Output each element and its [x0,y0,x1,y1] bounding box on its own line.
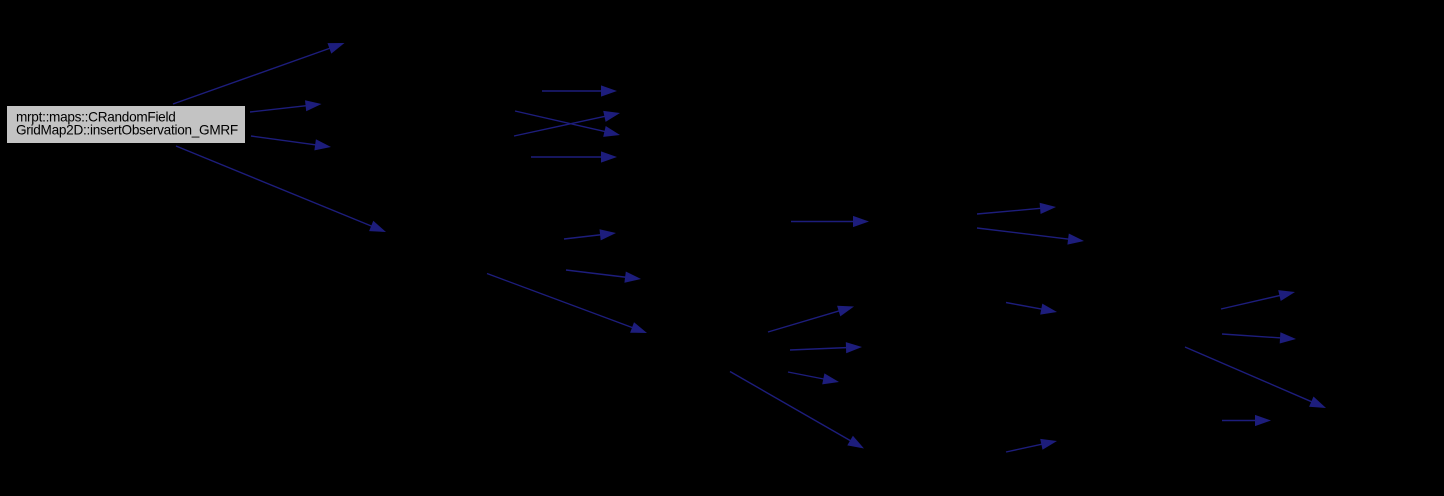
edge arrow e11 [487,274,647,334]
svg-text:GridMap2D::insertObservation_G: GridMap2D::insertObservation_GMRF [16,123,238,138]
edge arrow e14 [977,228,1084,245]
edge arrow e20 [1222,332,1296,343]
edge arrow e22 [1222,415,1271,426]
edge arrow e3 [251,136,331,150]
edge arrow e19 [1221,290,1295,309]
edge arrow e15 [768,306,854,332]
edge arrow e17 [788,372,839,384]
node: mrpt::maps::CRandomFieldGridMap2D::insertObservation_GMRF (root, highlighted) [7,106,246,144]
edge arrow e16 [790,342,862,353]
edge arrow e6 [515,111,620,137]
edge arrow e18 [730,372,864,449]
edge arrow e24 [1006,439,1057,452]
edge arrow e12 [791,216,869,227]
edge arrow e23 [1006,303,1057,315]
edge arrow e21 [1185,347,1326,408]
edge arrow e10 [566,270,641,283]
edge arrow e5 [542,85,617,96]
edge arrow e4 [176,146,386,232]
edge arrow e9 [564,229,616,240]
edge arrow e7 [514,111,620,136]
edge arrow e1 [173,43,345,104]
edge arrow e13 [977,203,1056,214]
edge arrow e2 [250,100,322,112]
edge arrow e8 [531,151,617,162]
